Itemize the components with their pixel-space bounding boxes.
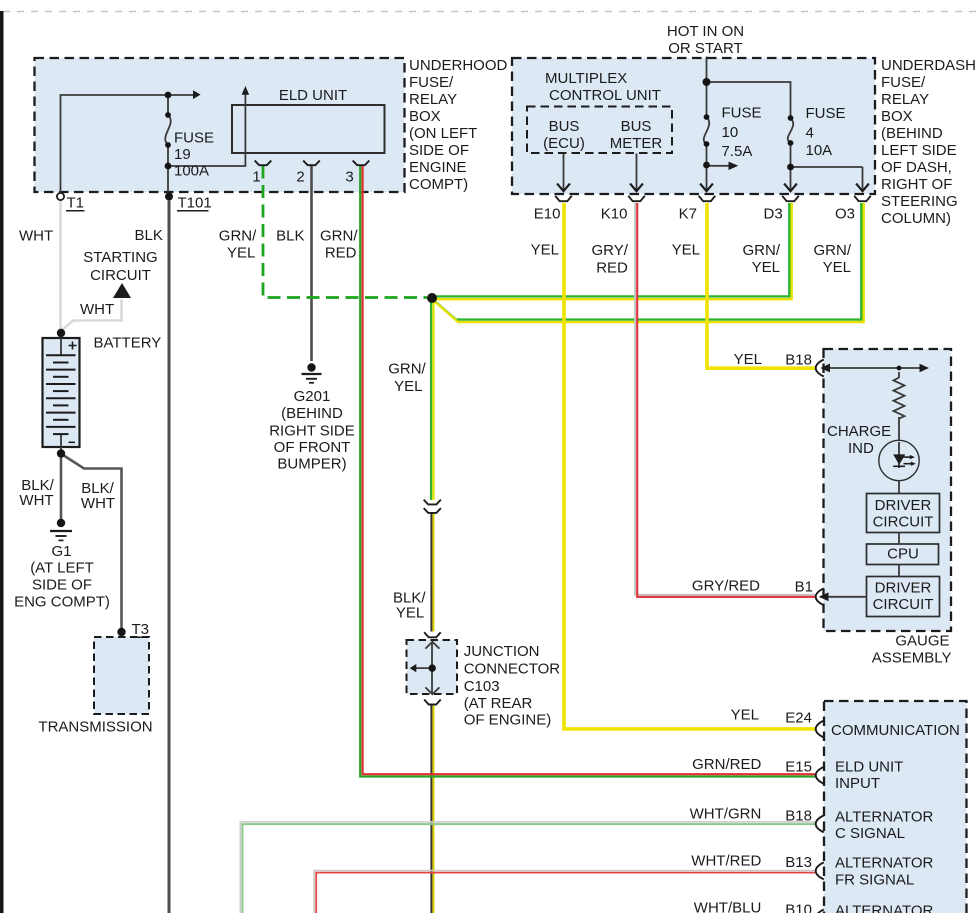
- svg-text:WHT: WHT: [19, 492, 53, 509]
- svg-text:STARTING: STARTING: [83, 249, 157, 266]
- svg-text:2: 2: [296, 169, 304, 186]
- svg-text:BLK: BLK: [276, 227, 304, 244]
- svg-text:RIGHT SIDE: RIGHT SIDE: [269, 422, 355, 439]
- svg-text:COLUMN): COLUMN): [881, 210, 951, 227]
- svg-text:7.5A: 7.5A: [722, 143, 753, 160]
- svg-text:WHT/RED: WHT/RED: [691, 852, 761, 869]
- svg-text:19: 19: [174, 146, 191, 163]
- svg-text:3: 3: [345, 169, 353, 186]
- svg-text:BLK: BLK: [135, 227, 163, 244]
- svg-text:GRY/RED: GRY/RED: [692, 578, 760, 595]
- svg-text:BATTERY: BATTERY: [94, 335, 162, 352]
- svg-text:OF DASH,: OF DASH,: [881, 159, 952, 176]
- svg-text:B18: B18: [785, 807, 812, 824]
- svg-text:ALTERNATOR: ALTERNATOR: [835, 808, 934, 825]
- svg-text:RED: RED: [596, 259, 628, 276]
- svg-text:100A: 100A: [174, 163, 209, 180]
- svg-text:RIGHT OF: RIGHT OF: [881, 176, 952, 193]
- svg-text:CONTROL UNIT: CONTROL UNIT: [549, 87, 661, 104]
- svg-text:HOT IN ON: HOT IN ON: [667, 23, 744, 40]
- svg-text:UNDERHOOD: UNDERHOOD: [409, 57, 508, 74]
- svg-text:YEL: YEL: [227, 244, 255, 261]
- svg-text:GAUGE: GAUGE: [895, 632, 949, 649]
- svg-text:WHT: WHT: [81, 495, 115, 512]
- svg-text:DRIVER: DRIVER: [875, 579, 932, 596]
- svg-text:GRN/: GRN/: [743, 242, 781, 259]
- svg-text:GRN/: GRN/: [388, 360, 426, 377]
- svg-text:YEL: YEL: [731, 707, 759, 724]
- svg-text:B10: B10: [785, 902, 812, 913]
- svg-text:GRN/: GRN/: [814, 242, 852, 259]
- svg-text:FUSE/: FUSE/: [409, 74, 454, 91]
- svg-text:MULTIPLEX: MULTIPLEX: [545, 70, 627, 87]
- svg-text:SIDE OF: SIDE OF: [409, 142, 469, 159]
- svg-text:K10: K10: [601, 205, 628, 222]
- svg-text:(BEHIND: (BEHIND: [281, 405, 343, 422]
- svg-text:(BEHIND: (BEHIND: [881, 125, 943, 142]
- svg-text:OF ENGINE): OF ENGINE): [464, 712, 552, 729]
- svg-text:CHARGE: CHARGE: [827, 423, 891, 440]
- svg-text:10: 10: [722, 124, 739, 141]
- svg-text:COMMUNICATION: COMMUNICATION: [831, 722, 960, 739]
- svg-text:YEL: YEL: [823, 259, 851, 276]
- svg-text:IND: IND: [848, 440, 874, 457]
- svg-text:JUNCTION: JUNCTION: [464, 643, 540, 660]
- svg-text:T1: T1: [67, 195, 85, 212]
- svg-text:(ON LEFT: (ON LEFT: [409, 125, 477, 142]
- svg-text:C SIGNAL: C SIGNAL: [835, 825, 905, 842]
- svg-text:ASSEMBLY: ASSEMBLY: [872, 649, 952, 666]
- svg-text:(ECU): (ECU): [543, 135, 585, 152]
- svg-text:OR START: OR START: [668, 40, 742, 57]
- svg-text:LEFT SIDE: LEFT SIDE: [881, 142, 957, 159]
- svg-text:FUSE/: FUSE/: [881, 74, 926, 91]
- svg-text:WHT: WHT: [80, 301, 114, 318]
- svg-text:BOX: BOX: [409, 108, 441, 125]
- svg-text:ALTERNATOR: ALTERNATOR: [835, 854, 934, 871]
- svg-text:OF FRONT: OF FRONT: [274, 439, 351, 456]
- svg-text:FR SIGNAL: FR SIGNAL: [835, 871, 914, 888]
- svg-text:B1: B1: [795, 579, 813, 596]
- svg-text:COMPT): COMPT): [409, 176, 468, 193]
- svg-text:CIRCUIT: CIRCUIT: [873, 596, 934, 613]
- svg-text:SIDE OF: SIDE OF: [32, 577, 92, 594]
- svg-text:BUS: BUS: [549, 118, 580, 135]
- svg-text:YEL: YEL: [531, 241, 559, 258]
- svg-text:ALTERNATOR: ALTERNATOR: [835, 903, 934, 913]
- svg-text:UNDERDASH: UNDERDASH: [881, 57, 976, 74]
- svg-text:K7: K7: [679, 205, 697, 222]
- svg-text:YEL: YEL: [752, 259, 780, 276]
- svg-text:ENGINE: ENGINE: [409, 159, 467, 176]
- svg-text:CIRCUIT: CIRCUIT: [90, 267, 151, 284]
- svg-text:DRIVER: DRIVER: [875, 497, 932, 514]
- svg-text:WHT/BLU: WHT/BLU: [694, 899, 762, 913]
- svg-text:FUSE: FUSE: [806, 105, 846, 122]
- svg-text:FUSE: FUSE: [174, 129, 214, 146]
- svg-text:RED: RED: [325, 244, 357, 261]
- svg-text:YEL: YEL: [734, 351, 762, 368]
- svg-text:GRY/: GRY/: [591, 242, 628, 259]
- svg-text:YEL: YEL: [672, 241, 700, 258]
- svg-text:O3: O3: [835, 205, 855, 222]
- svg-text:RELAY: RELAY: [409, 91, 457, 108]
- svg-text:1: 1: [252, 169, 260, 186]
- svg-text:G1: G1: [51, 543, 71, 560]
- svg-text:T3: T3: [132, 621, 150, 638]
- svg-text:G201: G201: [294, 388, 331, 405]
- svg-text:RELAY: RELAY: [881, 91, 929, 108]
- svg-text:YEL: YEL: [394, 378, 422, 395]
- svg-text:WHT/GRN: WHT/GRN: [690, 805, 762, 822]
- svg-text:CPU: CPU: [887, 546, 919, 563]
- svg-text:E15: E15: [785, 758, 812, 775]
- svg-text:E10: E10: [534, 205, 561, 222]
- svg-text:INPUT: INPUT: [835, 775, 880, 792]
- svg-text:T101: T101: [178, 195, 212, 212]
- svg-text:B13: B13: [785, 854, 812, 871]
- svg-text:10A: 10A: [806, 142, 833, 159]
- svg-text:GRN/RED: GRN/RED: [692, 756, 761, 773]
- svg-text:YEL: YEL: [396, 605, 424, 622]
- svg-text:ELD UNIT: ELD UNIT: [279, 87, 347, 104]
- svg-text:STEERING: STEERING: [881, 193, 958, 210]
- svg-text:BUMPER): BUMPER): [277, 455, 346, 472]
- svg-text:CONNECTOR: CONNECTOR: [464, 661, 561, 678]
- svg-text:B18: B18: [785, 351, 812, 368]
- svg-text:4: 4: [806, 124, 814, 141]
- svg-text:ELD UNIT: ELD UNIT: [835, 759, 903, 776]
- svg-text:E24: E24: [785, 710, 812, 727]
- svg-text:D3: D3: [764, 205, 783, 222]
- svg-text:BUS: BUS: [621, 118, 652, 135]
- svg-text:WHT: WHT: [19, 227, 53, 244]
- svg-text:FUSE: FUSE: [722, 104, 762, 121]
- svg-text:TRANSMISSION: TRANSMISSION: [38, 718, 152, 735]
- svg-text:GRN/: GRN/: [320, 227, 358, 244]
- svg-text:(AT LEFT: (AT LEFT: [30, 560, 94, 577]
- svg-text:(AT REAR: (AT REAR: [464, 695, 533, 712]
- svg-text:CIRCUIT: CIRCUIT: [873, 514, 934, 531]
- svg-text:C103: C103: [464, 678, 500, 695]
- svg-text:ENG COMPT): ENG COMPT): [14, 593, 110, 610]
- svg-text:GRN/: GRN/: [219, 227, 257, 244]
- svg-text:METER: METER: [610, 135, 663, 152]
- svg-text:BOX: BOX: [881, 108, 913, 125]
